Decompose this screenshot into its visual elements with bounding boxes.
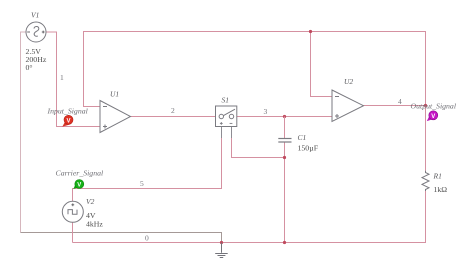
wire 5 carrier: V2 top to S1 control plus (73, 138, 222, 201)
svg-text:S1: S1 (222, 96, 230, 105)
probe Output_Signal (427, 111, 438, 121)
svg-text:Output_Signal: Output_Signal (411, 102, 456, 111)
svg-text:5: 5 (140, 179, 144, 188)
svg-text:R1: R1 (433, 172, 442, 181)
switch S1 (216, 106, 237, 127)
pin stub S1 control minus (231, 127, 233, 139)
probe Carrier_Signal (73, 180, 84, 190)
junction top rail (309, 30, 312, 33)
junction C1 bottom rail (283, 241, 286, 244)
svg-text:150µF: 150µF (298, 144, 319, 153)
voltage source V1 (26, 22, 46, 42)
svg-text:U2: U2 (344, 77, 353, 86)
S1 control polarity marks (220, 122, 233, 125)
wire R1 bottom to bottom rail (73, 191, 426, 243)
wire net1: V1 plus terminal down to U1 plus input (46, 32, 100, 127)
wire output column to R1 (425, 106, 427, 171)
svg-text:V: V (66, 119, 70, 125)
junction C1 bottom (283, 156, 286, 159)
svg-text:0°: 0° (26, 63, 33, 72)
svg-text:U1: U1 (110, 90, 119, 99)
voltage source V2 (62, 201, 83, 222)
svg-text:4: 4 (398, 97, 402, 106)
resistor R1 (422, 171, 429, 191)
wire 2: U1 output to S1 (131, 116, 216, 118)
junction ground tap (220, 241, 223, 244)
pin stub S1 control plus (221, 127, 223, 139)
wire net0 gray: V1 minus lead down and across to ground (21, 32, 222, 243)
wire 4: U2 output to output column (364, 105, 426, 107)
svg-text:V1: V1 (31, 11, 39, 20)
svg-text:V2: V2 (86, 197, 95, 206)
wire 3: S1 to U2 plus input (237, 116, 332, 118)
op-amp U2 (332, 90, 364, 122)
junction wire3 / C1 (283, 115, 286, 118)
svg-text:4kHz: 4kHz (86, 220, 103, 229)
wire U2 minus branch (311, 32, 333, 97)
capacitor C1 (278, 139, 291, 143)
svg-text:3: 3 (264, 107, 268, 116)
wire S1 control minus to C1 bottom (232, 138, 285, 158)
wire 0 bottom rail: V2 minus lead (72, 222, 74, 242)
probe Input_Signal (62, 115, 73, 126)
wire feedback top rail from U1 minus up across to output column (84, 32, 426, 107)
svg-text:V: V (77, 183, 81, 189)
svg-text:1: 1 (60, 73, 64, 82)
junction output column (424, 104, 427, 107)
op-amp U1 (100, 101, 131, 133)
svg-text:Input_Signal: Input_Signal (47, 107, 88, 116)
svg-text:1kΩ: 1kΩ (434, 185, 448, 194)
svg-text:Carrier_Signal: Carrier_Signal (56, 169, 104, 178)
svg-text:0: 0 (145, 234, 149, 243)
ground (215, 243, 228, 258)
svg-text:C1: C1 (298, 133, 307, 142)
wire C1 bottom to bottom rail (284, 142, 286, 243)
svg-text:2: 2 (171, 106, 175, 115)
svg-text:V: V (431, 114, 435, 120)
wire C1 top (284, 117, 286, 139)
